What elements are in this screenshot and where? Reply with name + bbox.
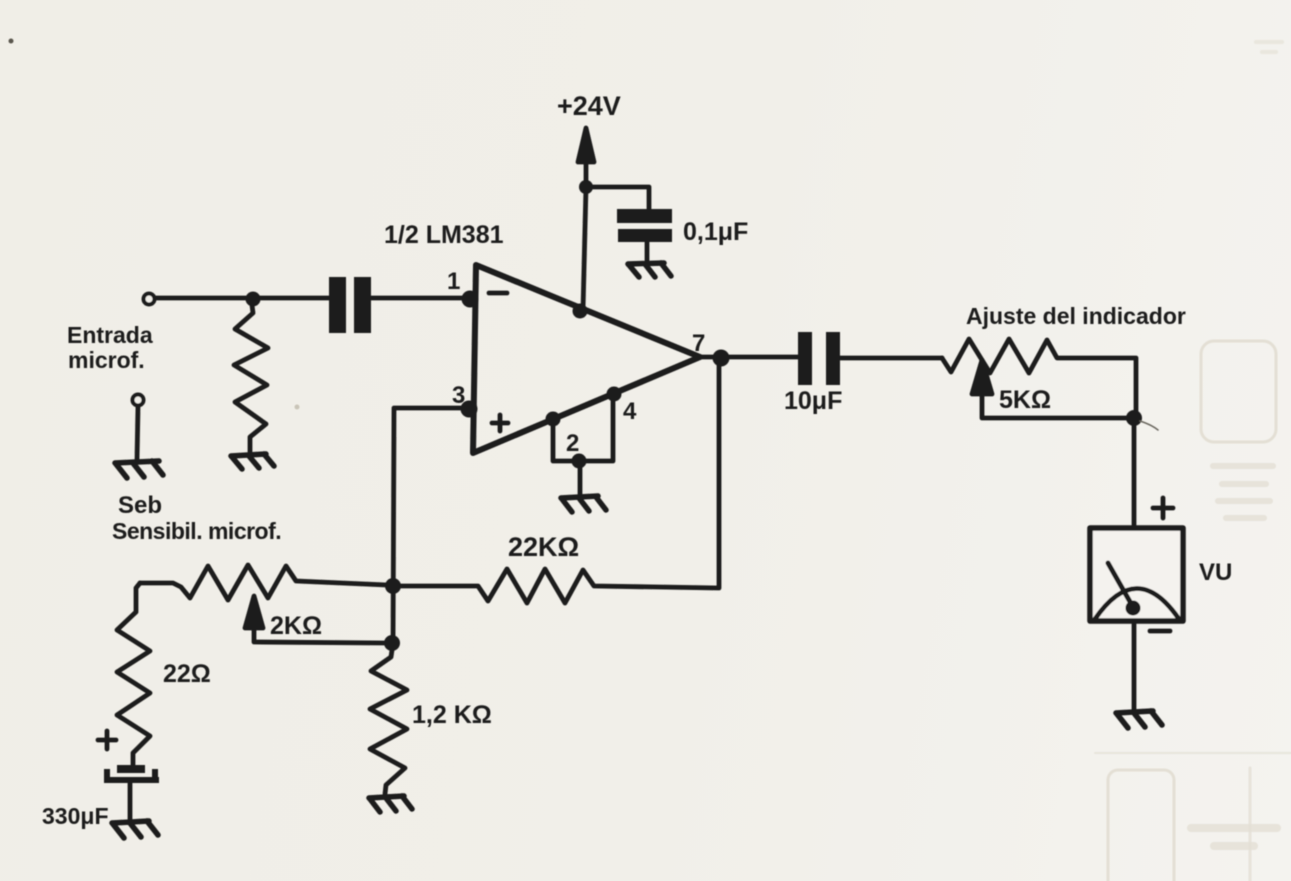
ground below 330uF — [112, 821, 158, 838]
potentiometer 2K wiper arrow — [245, 596, 384, 643]
label Entrada microf. — [67, 322, 153, 373]
svg-text:4: 4 — [623, 398, 637, 425]
svg-text:1: 1 — [447, 268, 460, 295]
potentiometer 5K body — [942, 339, 1136, 412]
resistor R input load — [234, 305, 268, 452]
potentiometer 5K wiper arrow — [972, 360, 1128, 418]
power arrow +24V — [578, 128, 594, 187]
capacitor 0,1uF — [617, 209, 672, 242]
resistor 22K feedback — [393, 357, 719, 603]
svg-text:2: 2 — [566, 430, 579, 457]
svg-text:5KΩ: 5KΩ — [999, 386, 1051, 414]
wire bottom-edge nodes to pin 2 — [553, 394, 613, 461]
ground below pin 2 — [561, 496, 606, 512]
svg-text:Seb: Seb — [118, 492, 162, 519]
capacitor 10uF — [798, 332, 840, 385]
plus sign VU — [1153, 498, 1173, 518]
node on op-amp top edge — [573, 304, 588, 319]
pin 1 node dot — [462, 291, 479, 308]
op-amp minus sign — [489, 291, 507, 296]
svg-text:22KΩ: 22KΩ — [508, 532, 579, 562]
resistor 1,2K — [370, 650, 407, 794]
wire cap to potentiometer 5K — [840, 356, 942, 361]
input node dot — [246, 292, 261, 307]
input terminal circle — [144, 294, 155, 305]
wire pin 2 to ground — [578, 461, 583, 495]
wire input to coupling cap — [155, 296, 330, 301]
wire V+ to bypass cap — [586, 187, 649, 209]
wire Seb terminal to ground — [137, 406, 138, 460]
wire cap to ground — [645, 242, 650, 262]
pin 2 node dot — [572, 454, 587, 469]
minus sign VU — [1150, 629, 1170, 634]
svg-text:7: 7 — [692, 330, 705, 357]
pin 3 node dot — [461, 401, 478, 418]
op-amp plus sign — [492, 415, 508, 431]
op-amp U1 triangle — [473, 265, 700, 453]
pin 7 node dot — [713, 350, 730, 367]
svg-text:10μF: 10μF — [784, 387, 842, 415]
node dot on bottom edge right pin 4 — [607, 387, 622, 402]
svg-text:+24V: +24V — [557, 91, 621, 121]
wire J3 down to VU meter — [1132, 418, 1137, 528]
wire 330uF to ground — [128, 783, 133, 820]
wire cap to pin 1 — [370, 296, 464, 301]
plus sign of electrolytic — [98, 731, 116, 749]
wire VU meter to ground — [1132, 621, 1137, 710]
node J1 dot — [385, 578, 401, 594]
svg-text:1,2 KΩ: 1,2 KΩ — [412, 701, 492, 729]
svg-text:330μF: 330μF — [42, 803, 109, 829]
svg-text:Sensibil. microf.: Sensibil. microf. — [112, 518, 281, 544]
svg-text:Ajuste del indicador: Ajuste del indicador — [966, 303, 1186, 329]
ground below 1,2K — [369, 796, 412, 812]
ground below VU — [1116, 711, 1162, 728]
coupling capacitor C1 — [329, 277, 371, 333]
node dot on bottom edge left — [546, 412, 561, 427]
wire pin 3 down to feedback node — [393, 408, 462, 648]
Seb terminal circle — [133, 395, 144, 406]
capacitor 330uF electrolytic — [104, 765, 159, 783]
ground below Seb — [115, 461, 163, 478]
potentiometer 2K body — [140, 565, 387, 600]
ground below input resistor — [231, 454, 274, 469]
svg-text:2KΩ: 2KΩ — [270, 612, 322, 640]
svg-text:microf.: microf. — [68, 347, 145, 373]
svg-text:0,1μF: 0,1μF — [683, 218, 748, 246]
node J3 dot — [1126, 410, 1142, 426]
ground below 0,1uF — [628, 263, 671, 277]
svg-text:22Ω: 22Ω — [163, 660, 211, 688]
wire V+ down to op-amp top edge — [583, 187, 586, 310]
svg-text:Entrada: Entrada — [67, 322, 153, 348]
svg-text:VU: VU — [1199, 559, 1232, 586]
node V+ junction dot — [579, 180, 593, 194]
VU meter M1 — [1090, 528, 1183, 621]
svg-text:1/2 LM381: 1/2 LM381 — [384, 221, 504, 249]
node J2 dot — [384, 635, 400, 651]
wire pin 7 to output cap — [698, 355, 798, 360]
resistor 22 ohm — [117, 583, 150, 767]
